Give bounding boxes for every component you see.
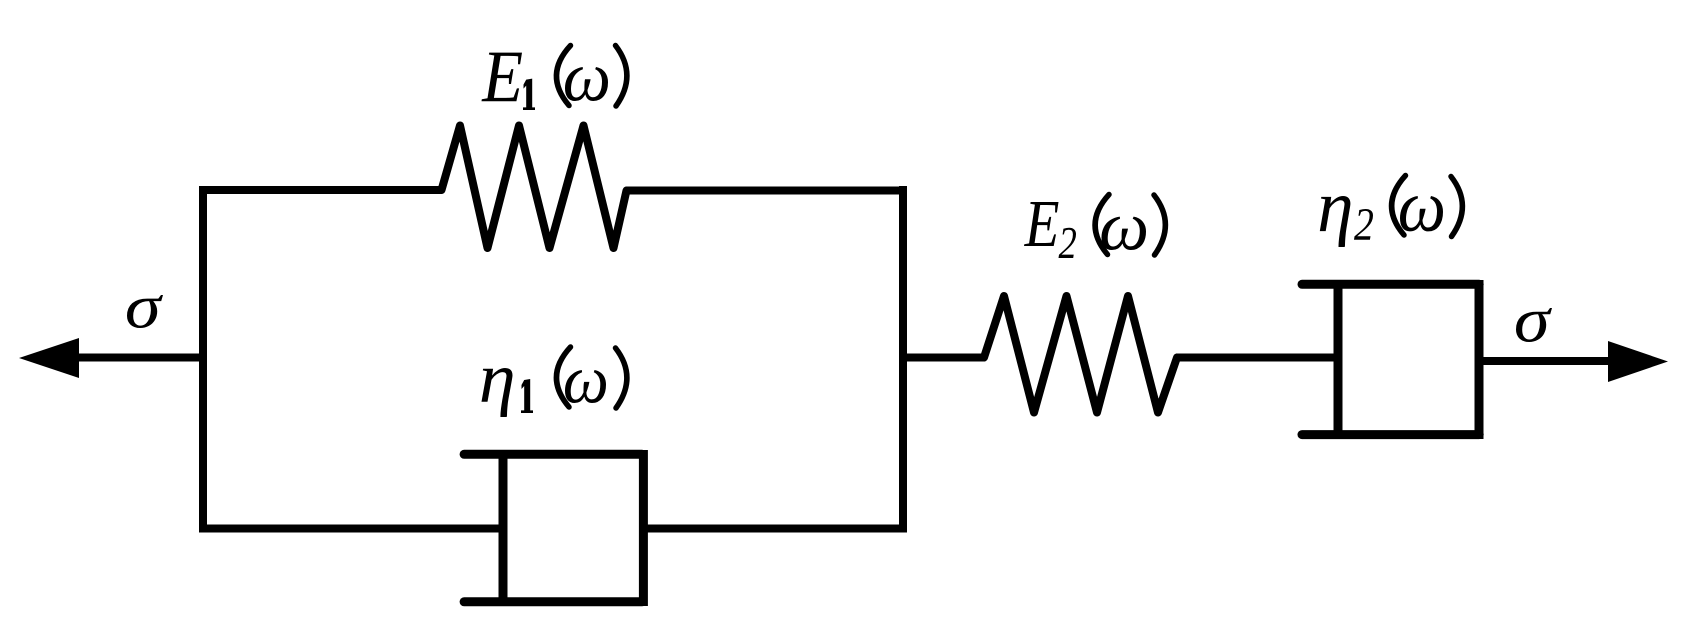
label E2(omega): subscript 2 <box>1059 228 1077 258</box>
dashpot eta1: piston plate <box>499 450 508 606</box>
label eta2(omega): left parenthesis <box>1392 176 1406 236</box>
dashpot eta2: piston plate <box>1334 280 1343 439</box>
label E2(omega): omega <box>1102 217 1147 250</box>
spring E1 <box>442 126 627 249</box>
label sigma left <box>127 295 163 328</box>
wire: left stress arrow stem <box>75 354 207 362</box>
label E1(omega): letter E <box>482 53 523 102</box>
label E1(omega): omega <box>565 67 608 101</box>
node: Kelvin-Voigt box right vertical <box>899 186 907 533</box>
wire: box right to spring E2 <box>899 354 985 362</box>
dashpot eta1: cylinder top line <box>464 450 642 459</box>
label eta1(omega): letter eta <box>482 368 513 417</box>
wire: spring E2 to dashpot eta2 piston rod <box>1176 354 1338 362</box>
label E1(omega): right parenthesis <box>616 46 627 107</box>
label E1(omega): subscript 1 <box>523 79 535 110</box>
label E1(omega): left parenthesis <box>556 46 570 106</box>
label E2(omega): left parenthesis <box>1095 195 1109 255</box>
label eta1(omega): right parenthesis <box>616 348 627 408</box>
label eta1(omega): left parenthesis <box>556 347 570 407</box>
label sigma right <box>1516 308 1552 342</box>
dashpot eta2: cylinder right wall <box>1475 280 1484 439</box>
arrowhead: right sigma arrow <box>1608 341 1668 382</box>
spring E2 <box>984 296 1177 413</box>
arrowhead: left sigma arrow <box>19 338 79 378</box>
node: Kelvin-Voigt box left vertical <box>199 186 207 533</box>
dashpot eta1: cylinder right wall <box>639 450 648 606</box>
label eta2(omega): omega <box>1400 196 1443 231</box>
wire: dashpot eta2 to right stress arrow <box>1479 357 1612 365</box>
label eta1(omega): subscript 1 <box>521 379 533 413</box>
label E2(omega): letter E <box>1024 202 1059 246</box>
dashpot eta2: cylinder bottom line <box>1302 430 1479 439</box>
wire: box bottom-right horizontal (rod out of dashpot eta1) <box>643 525 907 533</box>
wire: box bottom-left horizontal (rod into dashpot eta1) <box>199 525 503 533</box>
label eta2(omega): letter eta <box>1320 196 1351 247</box>
wire: box top-left horizontal <box>199 186 442 194</box>
dashpot eta1: cylinder bottom line <box>464 597 642 606</box>
dashpot eta2: cylinder top line <box>1302 280 1479 289</box>
wire: box top-right horizontal <box>626 187 907 195</box>
label E2(omega): right parenthesis <box>1154 195 1165 255</box>
label eta2(omega): right parenthesis <box>1451 177 1462 237</box>
label eta1(omega): omega <box>565 370 606 403</box>
label eta2(omega): subscript 2 <box>1354 209 1373 240</box>
